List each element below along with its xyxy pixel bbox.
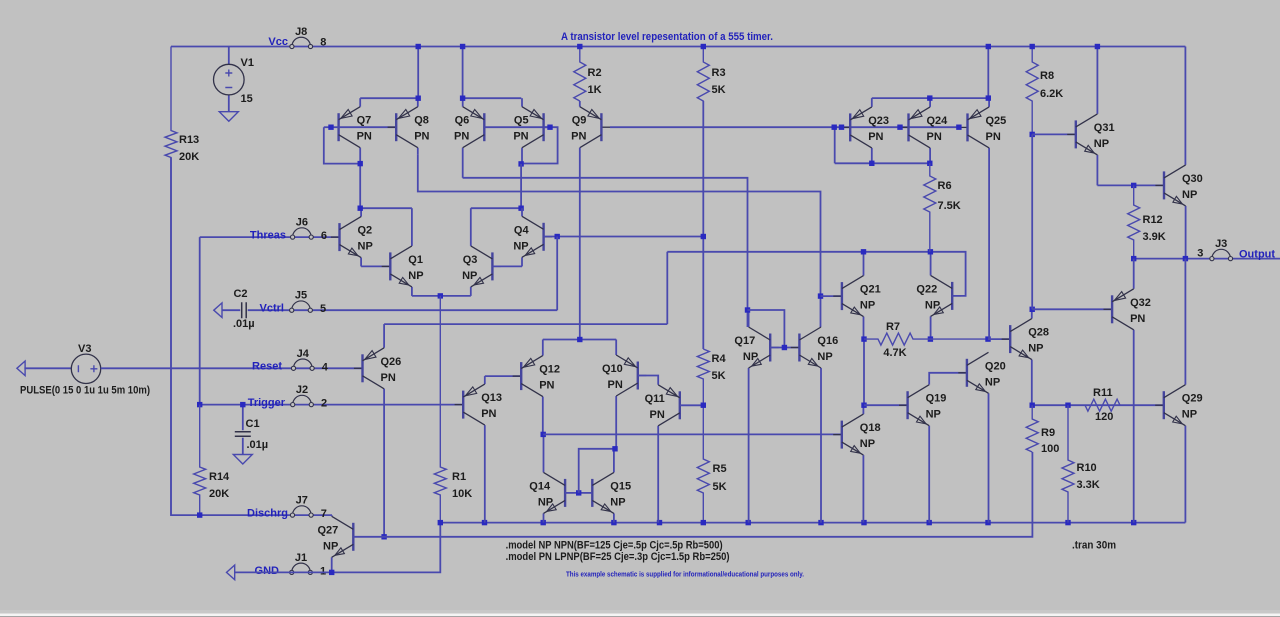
svg-text:R7: R7 bbox=[886, 321, 900, 333]
svg-text:4: 4 bbox=[322, 361, 329, 373]
svg-text:Output: Output bbox=[1239, 249, 1275, 261]
wire Q9 collector down to Q10/Q12 emitter bus bbox=[579, 148, 581, 340]
svg-text:PN: PN bbox=[927, 131, 942, 143]
wire Q12 collector bus to Q18 base bbox=[543, 433, 842, 435]
wire Trigger line bbox=[200, 404, 464, 406]
node Q7 base junction bbox=[328, 125, 333, 130]
wire Q26 emitter line to flip-flop node bbox=[384, 323, 667, 325]
wire Q6 emitter bus to rail bbox=[463, 97, 522, 99]
transistor Q9 bbox=[579, 101, 581, 107]
svg-text:Q2: Q2 bbox=[358, 225, 373, 237]
transistor Q31 bbox=[1096, 47, 1098, 114]
resistor R6 bbox=[924, 163, 936, 252]
port J2 pin 2 bbox=[293, 395, 312, 404]
wire left rail down to Dischrg line bbox=[171, 158, 332, 516]
wire Q9 base line to PNP mirror bases bbox=[610, 126, 959, 128]
resistor R2 bbox=[574, 47, 586, 102]
svg-text:NP: NP bbox=[513, 240, 528, 252]
svg-text:R5: R5 bbox=[713, 463, 727, 475]
transistor Q27 bbox=[331, 515, 333, 516]
svg-text:Q31: Q31 bbox=[1094, 122, 1115, 134]
wire Q4 base line to CV node bbox=[544, 236, 704, 238]
voltage source V3 bbox=[17, 361, 25, 376]
wire Q4 emitter to Q3 base bbox=[492, 265, 522, 267]
wire Q7 base loop bbox=[324, 126, 339, 128]
wire Q8 collector long line to Q16 bbox=[418, 155, 821, 327]
svg-text:1K: 1K bbox=[588, 84, 602, 96]
svg-text:PN: PN bbox=[513, 131, 528, 143]
node Q15 collector junction bbox=[612, 446, 617, 451]
svg-text:Q22: Q22 bbox=[916, 283, 937, 295]
node Q18 collector / Q19 base junction bbox=[861, 403, 866, 408]
svg-text:Q14: Q14 bbox=[529, 480, 551, 492]
node Q27 emitter junction bbox=[329, 570, 334, 575]
svg-text:R8: R8 bbox=[1040, 70, 1054, 82]
node Q16 collector / Q21 base junction bbox=[818, 293, 823, 298]
svg-text:Q4: Q4 bbox=[514, 224, 530, 236]
svg-text:5K: 5K bbox=[713, 481, 727, 493]
svg-text:NP: NP bbox=[817, 351, 832, 363]
svg-text:NP: NP bbox=[1182, 189, 1197, 201]
svg-text:Q24: Q24 bbox=[927, 115, 949, 127]
svg-text:C2: C2 bbox=[233, 288, 247, 300]
transistor Q14 bbox=[543, 434, 545, 472]
svg-text:Q1: Q1 bbox=[408, 254, 423, 266]
svg-text:J1: J1 bbox=[295, 552, 307, 564]
wire Q6/Q5 base tie bbox=[484, 126, 550, 128]
resistor R12 bbox=[1128, 185, 1140, 258]
wire Q21 emitter node down to Q18 bbox=[863, 339, 865, 405]
wire R8 line down to Q32 base node bbox=[1031, 134, 1033, 309]
svg-text:4.7K: 4.7K bbox=[883, 347, 906, 359]
node Q22 collector junction bbox=[928, 249, 933, 254]
wire Q1/Q2 collector bus bbox=[360, 207, 412, 209]
wire Q32 base wire bbox=[1032, 308, 1112, 310]
transistor Q3 bbox=[470, 208, 472, 246]
wire emitter bus riser to rail bbox=[987, 47, 989, 99]
node R1/GND junction bbox=[438, 520, 443, 525]
svg-text:GND: GND bbox=[255, 565, 280, 577]
transistor Q10 bbox=[615, 396, 617, 449]
svg-text:NP: NP bbox=[408, 270, 423, 282]
svg-text:10K: 10K bbox=[452, 488, 472, 500]
port J3 pin 3 bbox=[1212, 249, 1231, 258]
node output junctions bbox=[1131, 256, 1136, 261]
transistor Q6 bbox=[462, 98, 464, 107]
svg-text:Q32: Q32 bbox=[1130, 297, 1151, 309]
wire Q12/Q10 emitter bus bbox=[543, 339, 616, 341]
wire Q22 base hook bbox=[930, 252, 965, 296]
wire Q29 collector line from output node bbox=[1184, 259, 1186, 385]
svg-text:Q21: Q21 bbox=[860, 284, 881, 296]
svg-text:.model NP NPN(BF=125 Cje=.5p C: .model NP NPN(BF=125 Cje=.5p Cjc=.5p Rb=… bbox=[506, 540, 723, 552]
transistor Q7 bbox=[359, 98, 361, 107]
wire Q7-Q8 base tie bbox=[339, 126, 397, 128]
resistor R9 bbox=[1026, 405, 1038, 452]
svg-text:Q16: Q16 bbox=[817, 335, 838, 347]
node R12 top junction bbox=[1131, 183, 1136, 188]
node Q17 collector junction bbox=[745, 307, 750, 312]
svg-text:PN: PN bbox=[650, 409, 665, 421]
svg-text:R2: R2 bbox=[588, 67, 602, 79]
transistor Q17 bbox=[748, 310, 750, 327]
wire Threas riser down to Trigger node bbox=[199, 237, 201, 405]
svg-text:J5: J5 bbox=[295, 290, 307, 302]
svg-text:Q7: Q7 bbox=[357, 115, 372, 127]
port arrow for C2 ground bbox=[214, 303, 222, 318]
svg-text:PN: PN bbox=[986, 131, 1001, 143]
wire R8 bottom to Q31 base bbox=[1032, 133, 1076, 135]
port J8 pin 8 bbox=[292, 37, 311, 46]
transistor Q1 bbox=[411, 208, 413, 246]
svg-text:J8: J8 bbox=[295, 26, 307, 38]
svg-text:NP: NP bbox=[1028, 343, 1043, 355]
wire Q16/Q17 base tie bbox=[770, 347, 799, 349]
svg-text:R13: R13 bbox=[179, 134, 199, 146]
svg-text:PULSE(0 15 0 1u 1u 5m 10m): PULSE(0 15 0 1u 1u 5m 10m) bbox=[20, 384, 150, 396]
svg-text:Q17: Q17 bbox=[734, 335, 755, 347]
svg-text:NP: NP bbox=[538, 496, 553, 508]
wire Q23/Q24 collector bus bbox=[835, 162, 930, 164]
svg-text:PN: PN bbox=[868, 131, 883, 143]
svg-text:R3: R3 bbox=[712, 67, 726, 79]
wire Vcc top rail bbox=[171, 46, 1185, 48]
wire Q5 base-collector tie bbox=[521, 127, 558, 163]
svg-text:3: 3 bbox=[1197, 248, 1203, 260]
wire Vctrl riser to CV node bbox=[556, 237, 558, 311]
svg-text:PN: PN bbox=[454, 131, 469, 143]
wire R3 bottom to CV node and R4 bbox=[702, 101, 704, 349]
node R10 top junction bbox=[1065, 403, 1070, 408]
transistor Q16 bbox=[820, 326, 822, 328]
svg-text:Q9: Q9 bbox=[572, 115, 587, 127]
svg-text:R4: R4 bbox=[712, 353, 727, 365]
svg-text:NP: NP bbox=[860, 300, 875, 312]
svg-text:NP: NP bbox=[323, 540, 338, 552]
svg-text:R9: R9 bbox=[1041, 427, 1055, 439]
svg-text:6.2K: 6.2K bbox=[1040, 88, 1063, 100]
wire Q23/Q24/Q25 emitter bus bbox=[872, 97, 989, 99]
resistor R5 bbox=[697, 405, 709, 522]
svg-text:Q25: Q25 bbox=[986, 115, 1007, 127]
transistor Q25 bbox=[988, 98, 990, 107]
wire Q5 collector to Q3/Q4 collectors bbox=[520, 164, 522, 208]
svg-text:PN: PN bbox=[571, 131, 586, 143]
transistor Q29 bbox=[1184, 384, 1186, 386]
svg-text:.model PN LPNP(BF=25 Cje=.3p C: .model PN LPNP(BF=25 Cje=.3p Cjc=1.5p Rb… bbox=[506, 551, 730, 563]
svg-text:Reset: Reset bbox=[252, 361, 282, 373]
svg-text:Q5: Q5 bbox=[514, 115, 529, 127]
svg-text:Q13: Q13 bbox=[481, 392, 502, 404]
resistor R10 bbox=[1062, 405, 1074, 522]
node R8 bottom junction bbox=[1030, 132, 1035, 137]
wire R11 line bbox=[1032, 404, 1164, 406]
transistor Q4 bbox=[521, 208, 523, 216]
svg-text:.01µ: .01µ bbox=[247, 439, 269, 451]
wire Q3/Q4 collector bus bbox=[471, 207, 521, 209]
transistor Q19 bbox=[928, 383, 930, 385]
transistor Q24 bbox=[929, 98, 931, 107]
transistor Q22 bbox=[930, 252, 932, 276]
wire Threas line bbox=[200, 236, 340, 238]
svg-text:Q28: Q28 bbox=[1028, 327, 1049, 339]
svg-text:100: 100 bbox=[1041, 443, 1059, 455]
svg-text:Vcc: Vcc bbox=[268, 36, 288, 48]
transistor Q30 bbox=[1185, 164, 1187, 166]
svg-text:Q30: Q30 bbox=[1182, 173, 1203, 185]
transistor Q20 bbox=[988, 351, 990, 353]
resistor R7 bbox=[864, 333, 988, 345]
port J6 pin 6 bbox=[293, 228, 312, 237]
wire main ground bus bbox=[440, 522, 1185, 524]
transistor Q13 bbox=[484, 376, 486, 384]
svg-text:120: 120 bbox=[1095, 411, 1113, 423]
capacitor C2 bbox=[222, 309, 241, 311]
svg-text:Q19: Q19 bbox=[926, 393, 947, 405]
wire Q14/Q15 base tie bbox=[565, 492, 592, 494]
transistor Q15 bbox=[613, 449, 615, 473]
ground below C1 bbox=[233, 455, 252, 465]
svg-text:A transistor level repesentati: A transistor level repesentation of a 55… bbox=[561, 31, 773, 43]
resistor R1 bbox=[434, 296, 446, 523]
svg-text:NP: NP bbox=[926, 409, 941, 421]
svg-text:PN: PN bbox=[539, 380, 554, 392]
svg-text:Q18: Q18 bbox=[860, 422, 881, 434]
svg-text:R14: R14 bbox=[209, 471, 230, 483]
transistor Q32 bbox=[1133, 259, 1135, 289]
wire flip-flop set line bbox=[667, 251, 930, 253]
transistor Q5 bbox=[521, 98, 523, 107]
svg-text:8: 8 bbox=[320, 37, 326, 49]
node R14 bottom junction bbox=[197, 512, 202, 517]
svg-text:15: 15 bbox=[241, 93, 253, 105]
wire Q31 emitter to Q30 base bbox=[1097, 184, 1164, 186]
svg-text:3.3K: 3.3K bbox=[1077, 479, 1100, 491]
svg-text:R11: R11 bbox=[1093, 387, 1113, 399]
svg-text:J4: J4 bbox=[297, 348, 310, 360]
svg-text:Threas: Threas bbox=[250, 230, 286, 242]
node Q28 collector / Q32 base junction bbox=[1030, 307, 1035, 312]
svg-text:Q10: Q10 bbox=[602, 363, 623, 375]
transistor Q12 bbox=[542, 340, 544, 356]
wire Q2 emitter to Q1 base bbox=[361, 265, 390, 267]
svg-text:J7: J7 bbox=[296, 495, 308, 507]
svg-text:NP: NP bbox=[743, 351, 758, 363]
resistor R3 bbox=[697, 47, 709, 237]
wire Q15 collector to bases (diode tie) bbox=[579, 449, 614, 493]
svg-text:NP: NP bbox=[610, 496, 625, 508]
node Q21 collector junction bbox=[861, 249, 866, 254]
svg-text:Dischrg: Dischrg bbox=[247, 508, 288, 520]
svg-text:20K: 20K bbox=[179, 151, 199, 163]
svg-text:Q23: Q23 bbox=[868, 115, 889, 127]
svg-text:This example schematic is supp: This example schematic is supplied for i… bbox=[566, 572, 804, 579]
svg-text:Q8: Q8 bbox=[414, 115, 429, 127]
wire Q13 emitter to Q12 base bbox=[485, 375, 521, 377]
svg-text:Q26: Q26 bbox=[381, 356, 402, 368]
ground below V1 bbox=[219, 112, 238, 122]
transistor Q8 bbox=[417, 98, 419, 107]
svg-text:NP: NP bbox=[1182, 409, 1197, 421]
wire Q7 collector down to Q1/Q2 collectors bbox=[359, 164, 361, 209]
wire Q6 collector long line to Q17 bbox=[463, 178, 748, 327]
port J1 pin 1 bbox=[292, 563, 311, 572]
wire GND line bbox=[235, 523, 441, 573]
svg-text:20K: 20K bbox=[209, 488, 229, 500]
wire Q27 base bus to R9 bbox=[353, 452, 1032, 537]
svg-text:NP: NP bbox=[1094, 138, 1109, 150]
resistor R4 bbox=[697, 349, 709, 405]
node Trigger junction bbox=[197, 402, 202, 407]
svg-text:PN: PN bbox=[1130, 313, 1145, 325]
resistor R8 bbox=[1026, 47, 1038, 135]
node R7 right / Q28 base junction bbox=[985, 336, 990, 341]
node R7 left junction bbox=[861, 336, 866, 341]
wire Q19 collector to Q20 base bbox=[929, 373, 967, 385]
svg-text:1: 1 bbox=[320, 565, 326, 577]
capacitor C1 bbox=[242, 405, 244, 431]
wire Q11 base to R4/R5 node bbox=[680, 404, 704, 406]
svg-text:Trigger: Trigger bbox=[248, 397, 286, 409]
svg-text:5: 5 bbox=[320, 303, 326, 315]
wire mirror bus riser to base line bbox=[834, 127, 836, 163]
svg-text:PN: PN bbox=[357, 131, 372, 143]
svg-text:7.5K: 7.5K bbox=[938, 200, 961, 212]
node Q5 collector junction bbox=[518, 161, 523, 166]
svg-text:NP: NP bbox=[462, 270, 477, 282]
wire Q18 collector node to Q19 base bbox=[864, 404, 908, 406]
resistor R11 bbox=[1068, 399, 1130, 411]
svg-text:3.9K: 3.9K bbox=[1143, 231, 1166, 243]
svg-text:C1: C1 bbox=[246, 418, 260, 430]
svg-text:.01µ: .01µ bbox=[233, 318, 255, 330]
wire Q17 collector to bases cross link bbox=[748, 310, 785, 348]
transistor Q21 bbox=[863, 252, 865, 276]
svg-text:PN: PN bbox=[608, 379, 623, 391]
wire Output node line bbox=[1134, 258, 1280, 260]
svg-text:Q27: Q27 bbox=[318, 524, 339, 536]
svg-text:5K: 5K bbox=[712, 370, 726, 382]
wire V3 to Reset line bbox=[101, 367, 363, 369]
resistor R14 bbox=[194, 405, 206, 515]
window bottom bevel bbox=[0, 610, 1280, 614]
wire Vcc rail right drop to Q30 collector bbox=[1184, 47, 1186, 165]
svg-text:2: 2 bbox=[321, 398, 327, 410]
svg-text:NP: NP bbox=[925, 299, 940, 311]
svg-text:NP: NP bbox=[358, 241, 373, 253]
node Q28 emitter / R9 / R11 junction bbox=[1030, 403, 1035, 408]
svg-text:V1: V1 bbox=[241, 57, 254, 69]
transistor Q11 bbox=[657, 426, 659, 523]
transistor Q26 bbox=[383, 324, 385, 348]
voltage source V1 bbox=[228, 47, 230, 65]
svg-text:PN: PN bbox=[381, 372, 396, 384]
wire emitter bus corner into Q10 bbox=[615, 340, 617, 356]
svg-text:Q29: Q29 bbox=[1182, 393, 1203, 405]
svg-text:PN: PN bbox=[414, 131, 429, 143]
svg-text:NP: NP bbox=[985, 376, 1000, 388]
wire Q1/Q3 emitter bus to R1 bbox=[412, 295, 471, 297]
svg-text:PN: PN bbox=[481, 408, 496, 420]
svg-text:7: 7 bbox=[321, 508, 327, 520]
svg-text:Vctrl: Vctrl bbox=[260, 303, 284, 315]
svg-text:Q11: Q11 bbox=[645, 393, 665, 405]
svg-text:6: 6 bbox=[321, 230, 327, 242]
svg-text:V3: V3 bbox=[78, 343, 91, 355]
svg-text:R10: R10 bbox=[1077, 462, 1097, 474]
transistor Q18 bbox=[862, 405, 864, 414]
node Q26 collector junction on Q27 base bus bbox=[381, 534, 386, 539]
svg-text:5K: 5K bbox=[712, 84, 726, 96]
node Q7 collector junction bbox=[358, 161, 363, 166]
svg-text:R1: R1 bbox=[452, 471, 466, 483]
transistor Q2 bbox=[360, 208, 362, 216]
svg-text:Q12: Q12 bbox=[539, 364, 560, 376]
resistor R13 bbox=[165, 47, 177, 516]
transistor Q28 bbox=[1031, 309, 1033, 318]
svg-text:Q15: Q15 bbox=[610, 480, 631, 492]
wire Q7/Q8 emitter bus to rail bbox=[360, 97, 418, 99]
svg-text:R12: R12 bbox=[1143, 214, 1163, 226]
svg-text:J2: J2 bbox=[296, 384, 308, 396]
wire Q16 collector to Q21 base bbox=[821, 295, 842, 297]
svg-text:J6: J6 bbox=[296, 217, 308, 229]
node Q12/Q14 collector junction bbox=[541, 432, 546, 437]
transistor Q23 bbox=[871, 98, 873, 107]
svg-text:Q6: Q6 bbox=[455, 115, 470, 127]
svg-text:.tran 30m: .tran 30m bbox=[1072, 540, 1116, 552]
wire Q28 base wire bbox=[988, 338, 1010, 340]
port J4 pin 4 bbox=[294, 359, 313, 368]
svg-text:Q3: Q3 bbox=[463, 254, 478, 266]
svg-text:R6: R6 bbox=[938, 180, 952, 192]
svg-text:NP: NP bbox=[860, 438, 875, 450]
port J5 pin 5 bbox=[292, 301, 311, 310]
port J7 pin 7 bbox=[293, 506, 312, 515]
svg-text:Q20: Q20 bbox=[985, 360, 1006, 372]
port arrow for GND bbox=[227, 565, 235, 580]
wire Q10 base to Q11 emitter bbox=[638, 376, 658, 385]
svg-text:J3: J3 bbox=[1215, 238, 1227, 250]
